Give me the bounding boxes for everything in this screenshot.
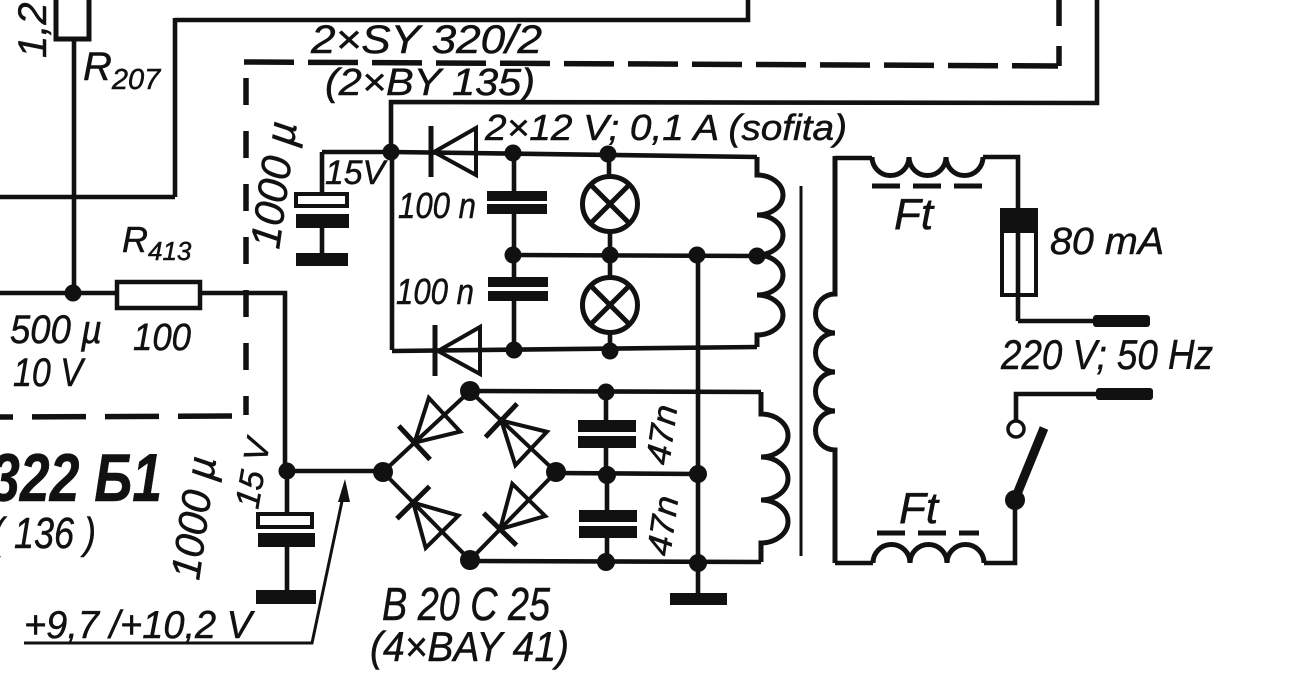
svg-text:Ft: Ft: [894, 190, 935, 239]
switch contact circle: [1008, 421, 1024, 437]
node bottom rail / lamp2: [602, 343, 619, 360]
svg-text:Ft: Ft: [899, 484, 940, 533]
node bridge left: [373, 462, 393, 482]
bridge rectifier edges: [383, 391, 556, 560]
node DC plus junction: [279, 463, 296, 480]
lamp H2: [583, 255, 638, 350]
bridge mid wire: [556, 473, 698, 474]
dashed module border: [0, 0, 1059, 417]
lamp mid rail: [513, 255, 757, 256]
wire terminal to switch: [1016, 394, 1096, 421]
svg-text:(2×BY 135): (2×BY 135): [325, 62, 535, 104]
ground bar (top cap): [296, 253, 348, 266]
svg-text:100: 100: [133, 317, 191, 359]
svg-text:2×SY 320/2: 2×SY 320/2: [310, 18, 542, 62]
node bridge bottom: [460, 550, 480, 570]
ferrite core dashes top: [872, 184, 982, 189]
node 47n bottom: [597, 553, 615, 571]
wire long top rail to mains side: [391, 0, 1097, 152]
switch pivot dot: [1005, 490, 1025, 510]
wire cap to lamp rail: [322, 150, 392, 155]
svg-text:2×12 V; 0,1 A (sofita): 2×12 V; 0,1 A (sofita): [484, 107, 847, 148]
capacitor 1000u/15V (top electrolytic): [296, 152, 349, 253]
transformer secondary winding upper: [757, 157, 783, 347]
label +9,7/+10,2V with arrow: [24, 479, 350, 647]
wire choke to fuse: [983, 157, 1018, 210]
svg-text:15V: 15V: [325, 154, 388, 192]
svg-text:10 V: 10 V: [13, 351, 86, 395]
mains terminal upper: [1093, 315, 1150, 327]
transformer core: [800, 186, 803, 556]
capacitor 1000u/15V (bottom electrolytic): [258, 471, 315, 590]
wire left vertical: [173, 18, 178, 197]
resistor R207: [56, 0, 89, 39]
capacitor 47n upper: [578, 392, 636, 475]
wire R413 to bridge corner: [200, 293, 383, 471]
lamp circuit left vertical wire: [390, 152, 395, 350]
lamp H1: [583, 154, 638, 255]
mains terminal lower: [1096, 388, 1153, 400]
ground bar (bottom cap): [256, 590, 316, 604]
wire left lower horizontal: [0, 291, 117, 296]
bridge diode bottom-left: [397, 486, 459, 548]
wire left mid horizontal: [0, 195, 175, 200]
node top rail left: [383, 144, 400, 161]
switch lever: [1015, 428, 1044, 499]
wire switch to choke: [984, 500, 1015, 563]
choke Ft bottom: [873, 545, 984, 564]
transformer secondary winding lower: [761, 392, 788, 562]
mains primary top lead: [835, 156, 872, 161]
node mid rail / transformer tap: [749, 248, 766, 265]
svg-text:(4×BAY 41): (4×BAY 41): [370, 623, 569, 670]
ferrite core dashes bottom: [877, 531, 979, 536]
node bridge right: [546, 462, 566, 482]
bridge diode top-left: [399, 398, 460, 460]
bridge diode bottom-right: [484, 484, 546, 546]
capacitor 100n lower: [488, 255, 548, 350]
capacitor 100n upper: [487, 153, 547, 255]
transformer primary winding: [816, 156, 835, 563]
wire fuse to terminal: [1018, 319, 1093, 324]
svg-text:500 µ: 500 µ: [10, 308, 102, 352]
ground line vertical: [696, 255, 701, 593]
bridge bottom wire: [470, 561, 761, 562]
svg-text:100 n: 100 n: [398, 185, 476, 226]
bridge diode top-right: [486, 404, 547, 466]
node mid rail / caps: [505, 247, 522, 264]
node ground line mid: [689, 465, 707, 483]
svg-text:1,2: 1,2: [11, 2, 55, 58]
svg-text:( 136 ): ( 136 ): [0, 509, 96, 558]
choke Ft top: [872, 157, 983, 176]
node junction R207/R413: [65, 285, 82, 302]
svg-text:80 mA: 80 mA: [1050, 221, 1164, 263]
node mid rail / lamp1: [602, 247, 619, 264]
node top rail / lamp1: [600, 146, 617, 163]
bridge input wire top: [470, 391, 761, 392]
node bridge top: [460, 381, 480, 401]
node top rail / C 100n: [505, 145, 522, 162]
fuse 80mA: [1002, 210, 1036, 321]
wire R207 down: [72, 39, 77, 293]
node bottom rail / caps: [506, 342, 523, 359]
lamp bottom rail: [392, 347, 757, 351]
svg-text:220 V; 50 Hz: 220 V; 50 Hz: [1000, 331, 1213, 378]
svg-text:100 n: 100 n: [396, 271, 474, 312]
svg-text:+9,7 /+10,2 V: +9,7 /+10,2 V: [24, 604, 256, 647]
node mid rail / ground line: [689, 247, 706, 264]
resistor R413: [117, 282, 200, 308]
wire top horizontal: [175, 0, 748, 20]
capacitor 47n lower: [579, 475, 637, 563]
node 47n mid: [598, 466, 616, 484]
diode D2 (bottom, cathode left): [435, 325, 480, 376]
node ground line bottom: [689, 554, 707, 572]
lamp top rail: [392, 152, 757, 157]
diode D1 (top, cathode left): [431, 126, 476, 177]
wire choke to primary bottom: [835, 561, 873, 566]
node 47n top: [598, 384, 615, 401]
ground symbol under bridge rail: [670, 593, 727, 605]
svg-text:322 Б1: 322 Б1: [0, 440, 162, 516]
